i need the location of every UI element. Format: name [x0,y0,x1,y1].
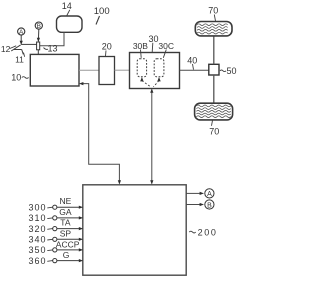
svg-text:30B: 30B [133,41,148,51]
spark plug / intake 11,12 [11,44,36,54]
svg-text:NE: NE [59,196,71,206]
node A (right) [205,189,214,198]
label 30B [133,41,148,58]
wheel 70 (top) [195,22,232,36]
wire ECU 200 to engine 10 [79,82,121,185]
label 13 [44,43,58,53]
node B (right) [205,200,214,209]
svg-text:70: 70 [209,126,219,136]
ECU 200 [83,185,186,275]
svg-text:70: 70 [208,6,218,16]
svg-text:A: A [207,191,212,198]
wire ECU 200 to motor unit 30 (bidirectional) [150,88,153,184]
svg-text:100: 100 [94,6,110,17]
node A (top) [18,28,25,45]
svg-text:12: 12 [1,44,11,54]
wire ECU to node B [186,203,204,206]
svg-text:A: A [19,29,24,36]
sensor 300 NE [28,196,83,212]
arrow into 30C [157,77,160,81]
wire engine 10 to transmission 20 [79,69,99,71]
svg-text:SP: SP [60,228,72,238]
arrow into 30B [140,77,143,81]
engine 10 [30,54,79,86]
svg-text:320: 320 [28,224,46,234]
svg-text:50: 50 [226,66,236,76]
axle wires [213,36,215,103]
motor 30C dashed [154,59,164,77]
label 11 [15,53,25,65]
svg-text:GA: GA [59,207,72,217]
motor 30B dashed [137,59,146,77]
sensor 320 TA [28,218,83,234]
label 30 [148,34,158,52]
label 20 [102,41,112,56]
svg-text:40: 40 [187,55,197,65]
svg-text:TA: TA [60,218,71,228]
svg-text:13: 13 [47,43,57,53]
injector 13 [37,42,40,55]
svg-text:10: 10 [11,73,21,83]
svg-text:G: G [63,250,70,260]
sensor 350 ACCP [28,240,83,255]
label 200 [189,227,217,237]
svg-text:310: 310 [28,213,46,223]
label 100 [94,6,110,24]
label 12 [1,44,16,54]
node B (top) [35,22,42,42]
label 30C [158,41,174,58]
svg-text:B: B [207,202,212,209]
motor unit 30 [130,53,180,89]
svg-text:20: 20 [102,41,112,51]
wheel 70 (bottom) [195,103,233,120]
wire motor unit 30 to differential 50 [180,69,209,71]
fuel tank 14 [57,1,83,32]
sensor 360 G [28,250,83,266]
wire ECU to node A [186,192,204,195]
svg-text:360: 360 [28,256,46,266]
svg-text:ACCP: ACCP [56,240,80,250]
dashed wires inside 30 [142,81,159,87]
svg-text:11: 11 [15,54,24,64]
sensor 340 SP [28,228,83,244]
label 40 [187,55,197,69]
sensor 310 GA [28,207,83,223]
label 10 [11,73,28,83]
svg-text:350: 350 [28,245,46,255]
svg-text:340: 340 [28,235,46,245]
svg-text:B: B [37,23,41,30]
transmission 20 [99,57,115,85]
svg-text:300: 300 [28,202,46,212]
svg-text:30C: 30C [158,41,174,51]
svg-text:30: 30 [148,34,158,44]
wire fuel line 14 to 13 [40,32,64,46]
svg-text:14: 14 [62,1,72,11]
differential 50 [209,64,219,75]
label 70 (bottom) [209,120,219,136]
label 50 [220,66,237,76]
label 70 (top) [208,6,218,21]
wire transmission 20 to motor unit 30 [115,69,130,71]
svg-text:200: 200 [198,227,218,237]
